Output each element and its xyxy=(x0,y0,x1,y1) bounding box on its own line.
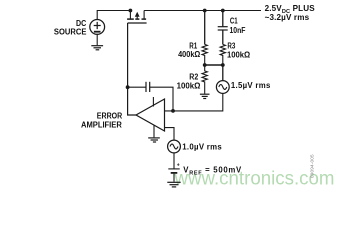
junction: output rail to C1 branch xyxy=(221,9,225,13)
svg-text:R3: R3 xyxy=(227,42,236,51)
junction: R3 bottom node xyxy=(221,63,225,67)
battery VREF xyxy=(168,169,179,182)
resistor R1 xyxy=(202,44,207,65)
svg-text:10nF: 10nF xyxy=(230,26,246,35)
wire: DC source top riser to rail xyxy=(97,11,130,20)
junction: error amp output to compensation cap xyxy=(126,85,130,89)
wire: top rail from transistor to output xyxy=(144,10,261,12)
ground (error amplifier) xyxy=(148,138,160,142)
svg-text:AMPLIFIER: AMPLIFIER xyxy=(81,120,122,129)
junction: output rail to R1 branch xyxy=(203,9,207,13)
ground (VREF) xyxy=(167,182,180,187)
label 2.5VDC PLUS / ~3.2uV rms xyxy=(265,4,316,22)
noise source 1.0uV rms xyxy=(168,140,181,168)
junction: inverting input node xyxy=(171,109,175,113)
wire: C1 branch drop xyxy=(222,11,224,27)
svg-text:1.0µV rms: 1.0µV rms xyxy=(182,143,222,152)
resistor R2 xyxy=(202,65,207,94)
svg-text:1.5µV rms: 1.5µV rms xyxy=(231,81,271,90)
svg-text:C1: C1 xyxy=(230,17,238,26)
op-amp U1 error amplifier xyxy=(136,97,165,137)
label R1 400k xyxy=(178,42,200,59)
compensation capacitor xyxy=(128,82,173,111)
svg-text:+: + xyxy=(177,162,180,168)
svg-text:100kΩ: 100kΩ xyxy=(177,82,201,91)
wire: R1 branch drop xyxy=(204,11,206,45)
junction: DC source to transistor source xyxy=(129,9,133,13)
svg-text:SOURCE: SOURCE xyxy=(54,27,87,36)
noise source 1.5uV rms xyxy=(165,65,230,111)
DC source V1 xyxy=(90,20,105,35)
label DC SOURCE xyxy=(54,19,87,36)
resistor R3 xyxy=(220,44,225,65)
junction: feedback divider node at R1/R2 xyxy=(203,63,207,67)
wire: node between dividers xyxy=(205,64,223,66)
label ERROR AMPLIFIER xyxy=(81,111,123,129)
wire: gate down the left side to error amp output xyxy=(128,23,136,115)
label C1 10nF xyxy=(230,17,246,35)
label R3 100k xyxy=(227,42,250,60)
label R2 100k xyxy=(177,72,201,90)
svg-text:09094-005: 09094-005 xyxy=(310,154,315,178)
svg-text:~3.2µV rms: ~3.2µV rms xyxy=(265,13,310,22)
ground (DC source) xyxy=(91,34,103,50)
svg-text:100kΩ: 100kΩ xyxy=(227,50,250,59)
transistor M1 pass MOSFET xyxy=(127,11,147,24)
ground (R2) xyxy=(200,94,210,98)
svg-text:R2: R2 xyxy=(189,72,199,81)
capacitor C1 xyxy=(218,27,228,45)
svg-text:ERROR: ERROR xyxy=(97,111,123,120)
wire: lower input to reference chain xyxy=(165,128,175,141)
svg-text:400kΩ: 400kΩ xyxy=(178,50,200,59)
